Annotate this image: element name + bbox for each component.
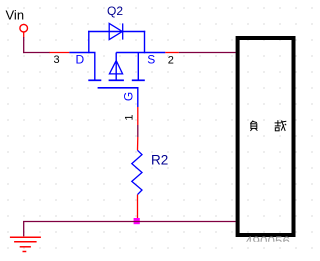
wire ground drop (maroon) (23, 222, 25, 237)
load box (238, 38, 294, 235)
terminal circle Vin (20, 24, 28, 32)
transistor Q2 pin 1 line (G) (137, 88, 139, 107)
transistor Q2 source branch horizontal / pin 2 line (S) (116, 52, 165, 54)
resistor R2 zigzag (132, 150, 142, 194)
wire resistor bottom (red) (137, 195, 139, 219)
transistor Q2 outer-right vertical (144, 31, 146, 53)
wire from pin 2 (red) (165, 52, 179, 54)
svg-text:G: G (121, 92, 135, 101)
svg-text:S: S (147, 52, 155, 66)
transistor Q2 outer-left vertical (88, 31, 90, 53)
transistor Q2 left plate (88, 79, 101, 81)
wire to resistor top (red) (137, 137, 139, 150)
load text character 2 (zai) (275, 120, 287, 131)
svg-text:R2: R2 (151, 152, 168, 167)
junction dot (134, 218, 140, 224)
svg-text:Vin: Vin (6, 8, 25, 23)
wire to load (maroon) (179, 52, 236, 54)
body diode cathode bar (122, 23, 124, 39)
svg-text:3: 3 (54, 54, 60, 66)
svg-text:Q2: Q2 (107, 4, 123, 18)
svg-text:1: 1 (123, 114, 135, 120)
transistor Q2 inner-left vertical (94, 53, 96, 80)
transistor Q2 substrate arrow triangle (109, 61, 122, 74)
transistor Q2 gate bar (98, 87, 139, 89)
wire bottom rail (maroon) (23, 221, 236, 223)
wire to pin 3 (red) (50, 52, 70, 54)
transistor Q2 substrate arrow stem (115, 53, 117, 81)
svg-text:2: 2 (168, 55, 174, 67)
transistor Q2 middle plate (109, 79, 124, 81)
wire Vin horizontal (maroon) (23, 52, 50, 54)
svg-text:490056: 490056 (245, 234, 290, 249)
wire Vin stub (red) (23, 32, 25, 37)
wire gate stub (red) (137, 107, 139, 125)
transistor Q2 pin 3 line (D) (69, 52, 95, 54)
wire gate middle (maroon) (137, 125, 139, 137)
load text character 1 (fu) (250, 121, 257, 131)
ground (10, 237, 41, 251)
transistor Q2 right plate (132, 79, 145, 81)
body diode triangle (109, 23, 122, 39)
svg-text:D: D (76, 52, 85, 66)
transistor Q2 inner-right vertical (137, 53, 139, 80)
transistor Q2 top body-diode wire (88, 31, 145, 33)
wire Vin vertical (maroon) (23, 37, 25, 53)
